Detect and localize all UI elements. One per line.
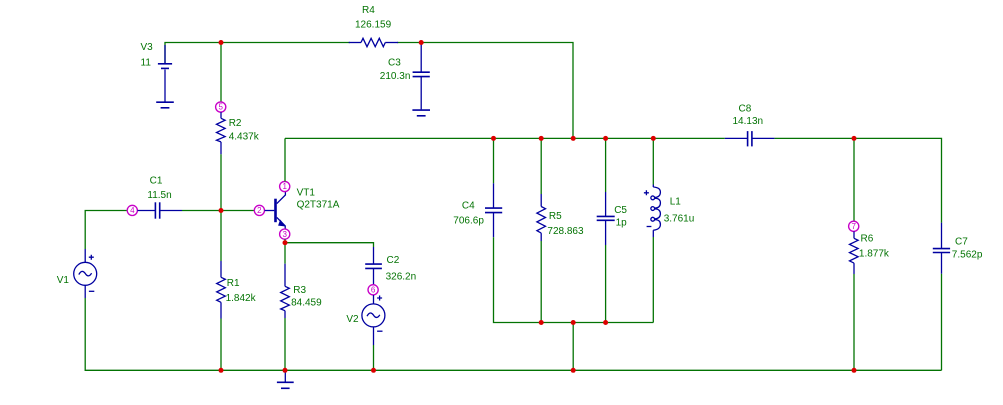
- svg-text:326.2n: 326.2n: [386, 272, 417, 283]
- junction dot base row at R1/R2: [219, 208, 224, 213]
- svg-text:Q2T371A: Q2T371A: [297, 199, 340, 210]
- junction dot bus at L1: [651, 136, 656, 141]
- svg-text:11.5n: 11.5n: [147, 190, 171, 201]
- svg-text:1p: 1p: [616, 218, 628, 229]
- resistor R5: [537, 194, 546, 241]
- svg-text:1.877k: 1.877k: [859, 249, 890, 260]
- svg-text:1: 1: [282, 182, 287, 191]
- node 7: [849, 221, 859, 231]
- wire tank rail down to ground rail: [572, 323, 574, 371]
- resistor R4: [349, 38, 398, 46]
- junction dot top rail at R2 branch: [219, 40, 224, 45]
- node 3: [280, 229, 290, 239]
- svg-text:L1: L1: [670, 197, 682, 208]
- wire base-row junction down to R1: [220, 211, 222, 262]
- svg-text:706.6p: 706.6p: [453, 215, 484, 226]
- ground at bottom rail: [277, 370, 294, 388]
- wire V1 top to node 4: [85, 211, 127, 250]
- svg-text:4: 4: [130, 206, 135, 215]
- junction dot ground rail at R6: [852, 368, 857, 373]
- node 5: [216, 102, 226, 112]
- junction dot bus at R6: [852, 136, 857, 141]
- svg-text:C7: C7: [955, 237, 968, 248]
- junction dot R4 to C3: [419, 40, 424, 45]
- resistor R3: [281, 264, 290, 318]
- svg-text:R1: R1: [227, 278, 240, 289]
- svg-text:84.459: 84.459: [291, 298, 322, 309]
- svg-text:R3: R3: [293, 285, 306, 296]
- inductor L1: [644, 185, 661, 238]
- svg-text:V3: V3: [141, 42, 154, 53]
- wire L1 branch top: [652, 138, 654, 184]
- wire C5 bottom to tank rail: [605, 245, 607, 323]
- junction dot ground rail at V2: [371, 368, 376, 373]
- resistor R1: [217, 261, 226, 319]
- transistor VT1 (NPN): [265, 192, 286, 229]
- wire top rail from V3 to R4: [165, 43, 350, 64]
- capacitor C7: [933, 223, 950, 274]
- node 6: [368, 285, 378, 295]
- wire V1 bottom to ground rail: [85, 298, 221, 370]
- svg-text:C5: C5: [614, 205, 627, 216]
- wire V2 bottom to ground rail: [373, 345, 375, 370]
- svg-text:C8: C8: [739, 103, 752, 114]
- svg-text:3: 3: [282, 230, 287, 239]
- junction dot ground rail at x=573: [571, 368, 576, 373]
- svg-text:4.437k: 4.437k: [229, 132, 260, 143]
- ground below V3: [156, 102, 174, 108]
- wire C4 bottom to tank rail: [494, 237, 542, 322]
- wire C4 branch top: [493, 138, 495, 183]
- wire R5 bottom to tank rail: [540, 241, 542, 323]
- svg-text:14.13n: 14.13n: [733, 116, 764, 127]
- svg-text:C1: C1: [150, 176, 163, 187]
- ground below C3: [412, 110, 430, 116]
- resistor R2: [217, 112, 226, 154]
- svg-text:R5: R5: [549, 211, 562, 222]
- wire emitter junction down to R3: [284, 243, 286, 264]
- svg-text:126.159: 126.159: [355, 20, 392, 31]
- resistor R6: [850, 231, 859, 274]
- voltage source V3 (battery): [158, 45, 172, 102]
- voltage source V2 (sine): [362, 295, 385, 345]
- svg-text:728.863: 728.863: [547, 226, 584, 237]
- wire R3 bottom to ground rail: [284, 318, 286, 370]
- svg-text:7: 7: [851, 222, 856, 231]
- svg-text:2: 2: [257, 206, 262, 215]
- capacitor C8: [725, 131, 775, 146]
- svg-text:1.842k: 1.842k: [226, 293, 257, 304]
- junction dot tank rail at C5: [603, 320, 608, 325]
- wire R6 bottom to ground rail: [853, 274, 855, 370]
- wire R1 bottom to ground rail: [220, 319, 222, 371]
- junction dot emitter node: [283, 240, 288, 245]
- junction dot bus at C4: [491, 136, 496, 141]
- svg-text:V2: V2: [346, 314, 359, 325]
- capacitor C4: [485, 183, 502, 237]
- wire C5 branch top: [605, 138, 607, 192]
- node 1: [280, 181, 290, 191]
- junction dot ground rail at R1: [219, 368, 224, 373]
- capacitor C3: [413, 43, 430, 110]
- wire R6 branch top: [853, 138, 855, 221]
- svg-text:R4: R4: [362, 5, 375, 16]
- wire collector up to bus: [284, 138, 286, 181]
- wire C8 right to R6 junction and C7 corner: [775, 138, 942, 222]
- tank bottom rail: [541, 322, 653, 324]
- capacitor C5: [597, 192, 615, 245]
- svg-text:6: 6: [371, 286, 376, 295]
- junction dot tank rail at R5: [539, 320, 544, 325]
- wire from top rail junction down to node 5: [220, 43, 222, 102]
- ground rail bottom: [221, 369, 942, 371]
- svg-text:V1: V1: [57, 275, 70, 286]
- wire emitter node to junction and right to C2 branch: [285, 239, 374, 247]
- junction dot bus at x=573: [571, 136, 576, 141]
- node 4: [127, 205, 137, 215]
- bus wire collector corner to C8: [285, 137, 725, 139]
- node 2: [254, 205, 264, 215]
- svg-text:C2: C2: [387, 255, 400, 266]
- svg-text:VT1: VT1: [297, 188, 316, 199]
- svg-text:C4: C4: [462, 200, 475, 211]
- junction dot bus at C5: [603, 136, 608, 141]
- svg-text:7.562p: 7.562p: [952, 249, 983, 260]
- wire from R4 right to C3 junction and down-corner at x=573: [397, 43, 573, 139]
- wire C7 bottom down right side to ground rail: [941, 274, 943, 371]
- wire L1 bottom to tank rail: [652, 237, 654, 323]
- junction dot bus at R5: [539, 136, 544, 141]
- wire C1 to junction to node 2: [182, 210, 254, 212]
- wire R5 branch top: [540, 138, 542, 194]
- svg-text:R6: R6: [861, 234, 874, 245]
- capacitor C2: [365, 247, 382, 285]
- voltage source V1 (sine): [74, 249, 97, 298]
- svg-text:11: 11: [141, 57, 152, 68]
- junction dot ground rail at R3: [283, 368, 288, 373]
- capacitor C1: [138, 202, 183, 218]
- svg-text:C3: C3: [388, 58, 401, 69]
- svg-text:210.3n: 210.3n: [380, 71, 411, 82]
- svg-text:3.761u: 3.761u: [664, 214, 695, 225]
- junction dot tank rail at x=573: [571, 320, 576, 325]
- svg-text:5: 5: [218, 103, 223, 112]
- svg-text:R2: R2: [229, 118, 242, 129]
- wire R2 bottom to base-row junction: [220, 154, 222, 210]
